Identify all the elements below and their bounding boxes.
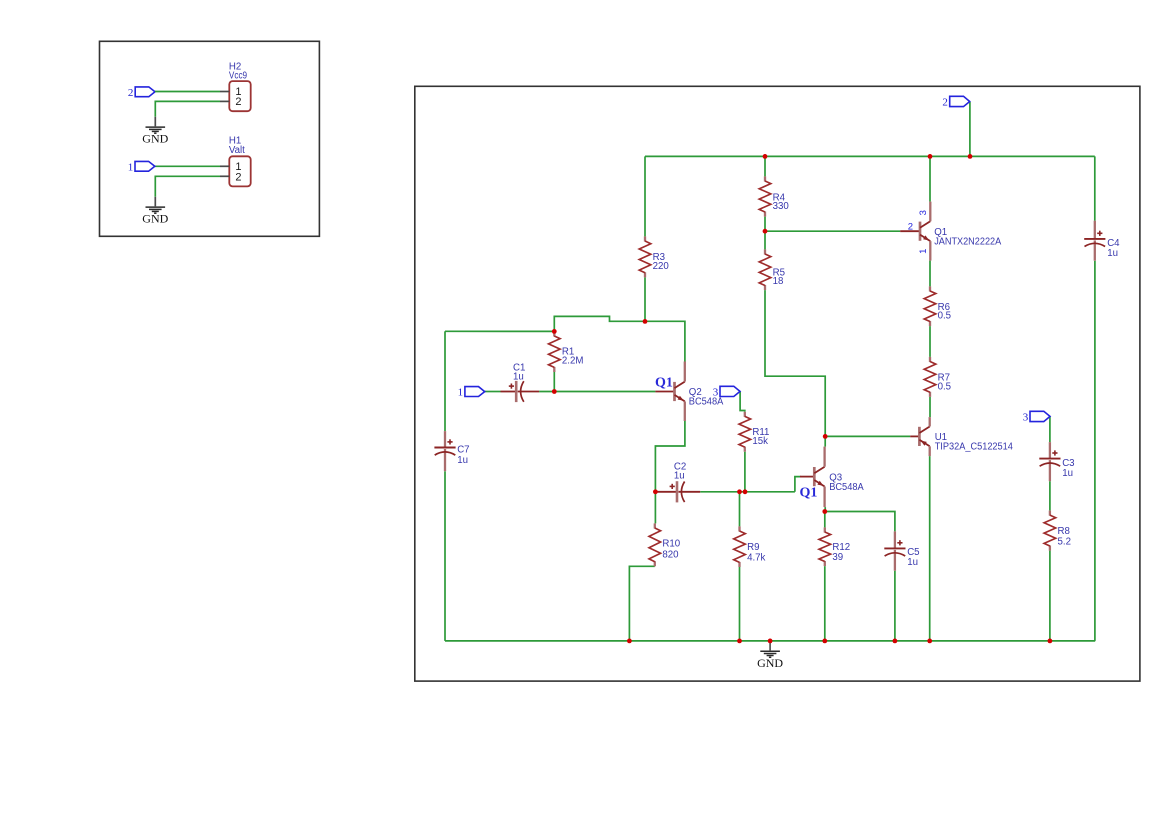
svg-text:GND: GND <box>142 212 168 226</box>
svg-text:BC548A: BC548A <box>689 396 724 407</box>
svg-text:GND: GND <box>757 656 783 670</box>
wire <box>764 156 766 176</box>
svg-text:Q1: Q1 <box>800 485 818 500</box>
junction C5 ground <box>893 639 898 644</box>
junction R12 ground <box>822 639 827 644</box>
svg-text:2: 2 <box>235 171 241 183</box>
wire <box>739 492 741 527</box>
wire <box>539 391 655 393</box>
port 1 (input) <box>465 387 485 397</box>
junction port2 bus <box>968 154 973 159</box>
wire <box>1049 551 1051 641</box>
svg-text:1: 1 <box>458 387 464 399</box>
resistor R4 <box>759 176 771 216</box>
wire U1 base stub <box>910 435 918 437</box>
wire <box>894 571 896 641</box>
wire <box>744 452 746 492</box>
transistor Q1 (JANTX2N2222A) <box>920 202 930 261</box>
connector H2 <box>220 81 251 111</box>
resistor R7 <box>924 357 936 397</box>
wire <box>824 566 826 641</box>
wire <box>929 326 931 357</box>
wire <box>700 491 795 493</box>
wire <box>824 507 826 511</box>
wire <box>155 91 220 93</box>
svg-text:1u: 1u <box>1062 468 1073 479</box>
svg-text:3: 3 <box>918 210 929 215</box>
wire <box>764 231 766 249</box>
svg-text:0.5: 0.5 <box>938 382 951 393</box>
resistor R8 <box>1044 511 1056 551</box>
junction R11 bottom <box>743 489 748 494</box>
junction R9 top <box>737 489 742 494</box>
wire <box>155 101 220 116</box>
wire ground bus <box>445 640 1095 642</box>
junction R9 ground <box>737 639 742 644</box>
junction R10 ground <box>627 639 632 644</box>
resistor R10 <box>649 523 661 566</box>
wire <box>824 436 826 446</box>
svg-text:1: 1 <box>128 161 134 173</box>
svg-text:2: 2 <box>235 96 241 108</box>
resistor R9 <box>734 526 746 567</box>
svg-text:R9: R9 <box>747 542 759 553</box>
capacitor C7 <box>434 431 455 471</box>
wire <box>929 261 931 287</box>
svg-text:820: 820 <box>662 550 679 561</box>
wire <box>929 456 931 641</box>
wire <box>740 392 745 412</box>
svg-text:GND: GND <box>142 132 168 146</box>
wire Vcc bus <box>645 155 1095 157</box>
junction R8 ground <box>1048 639 1053 644</box>
wire <box>765 290 825 436</box>
svg-text:Q1: Q1 <box>655 376 673 391</box>
junction R4 top <box>763 154 768 159</box>
wire <box>824 512 826 528</box>
svg-text:JANTX2N2222A: JANTX2N2222A <box>934 237 1002 248</box>
svg-text:5.2: 5.2 <box>1058 536 1071 547</box>
junction Q3 emitter <box>822 509 827 514</box>
svg-text:2: 2 <box>942 97 948 109</box>
svg-text:1u: 1u <box>513 371 524 382</box>
wire <box>654 492 656 524</box>
wire <box>444 331 446 431</box>
svg-text:BC548A: BC548A <box>829 482 864 493</box>
capacitor C1 <box>501 381 540 402</box>
junction R3 bottom <box>643 319 648 324</box>
resistor R1 <box>549 331 561 372</box>
wire <box>929 397 931 417</box>
ground GND (main) <box>757 641 783 670</box>
junction Q3 collector <box>823 434 828 439</box>
junction R4/R5 <box>763 229 768 234</box>
wire Q3 base stub <box>800 476 813 478</box>
svg-text:0.5: 0.5 <box>938 310 951 321</box>
wire <box>739 567 741 641</box>
svg-text:3: 3 <box>1023 412 1029 424</box>
ground GND (sheet1 lower) <box>142 197 168 226</box>
svg-text:4.7k: 4.7k <box>747 552 765 563</box>
port 3 (right) <box>1030 411 1050 421</box>
svg-text:1u: 1u <box>674 471 685 482</box>
wire <box>825 512 895 532</box>
frame main circuit <box>415 86 1140 681</box>
svg-text:220: 220 <box>653 261 670 272</box>
frame sheet1 <box>100 41 320 236</box>
wire <box>1094 261 1096 641</box>
junction Q1 collector bus <box>928 154 933 159</box>
ground GND (sheet1 upper) <box>142 117 168 146</box>
junction U1 ground <box>927 639 932 644</box>
port 1 (sheet1) <box>135 161 155 171</box>
svg-text:330: 330 <box>773 201 790 212</box>
wire <box>795 477 801 492</box>
wire <box>1094 156 1096 220</box>
port 2 (top) <box>950 96 970 106</box>
junction C1/R1 <box>552 389 557 394</box>
svg-text:18: 18 <box>773 276 784 287</box>
wire <box>644 277 646 321</box>
svg-text:C3: C3 <box>1062 458 1074 469</box>
wire <box>554 316 685 361</box>
wire <box>155 165 220 167</box>
connector H1 <box>220 156 251 186</box>
wire <box>629 566 654 641</box>
svg-text:1: 1 <box>918 249 929 254</box>
capacitor C3 <box>1039 442 1060 481</box>
svg-text:Valt: Valt <box>229 145 245 156</box>
svg-text:1u: 1u <box>1107 248 1118 259</box>
wire <box>644 156 646 236</box>
wire <box>485 391 501 393</box>
svg-text:1u: 1u <box>907 557 918 568</box>
svg-text:C7: C7 <box>457 445 469 456</box>
junction C2 left <box>653 489 658 494</box>
resistor R11 <box>739 412 751 452</box>
wire <box>444 471 446 641</box>
resistor R3 <box>639 236 651 277</box>
capacitor C5 <box>884 531 905 570</box>
svg-text:39: 39 <box>832 552 843 563</box>
svg-text:TIP32A_C5122514: TIP32A_C5122514 <box>935 442 1014 453</box>
wire <box>825 435 910 437</box>
svg-text:15k: 15k <box>752 436 768 447</box>
svg-text:Vcc9: Vcc9 <box>229 70 247 81</box>
wire <box>655 421 685 492</box>
svg-text:R10: R10 <box>662 538 680 549</box>
resistor R6 <box>924 286 936 326</box>
port 2 (sheet1) <box>135 87 155 97</box>
svg-text:R8: R8 <box>1058 526 1070 537</box>
wire Q1 base stub <box>900 230 919 232</box>
wire <box>1049 481 1051 510</box>
svg-text:2.2M: 2.2M <box>562 356 584 367</box>
capacitor C4 <box>1084 221 1105 261</box>
wire <box>155 176 220 197</box>
svg-text:2: 2 <box>908 221 913 232</box>
capacitor C2 <box>655 481 700 502</box>
wire <box>929 156 931 201</box>
wire <box>1049 417 1051 443</box>
transistor Q2 (BC548A) <box>675 362 685 422</box>
junction R1 top <box>552 329 557 334</box>
resistor R5 <box>759 249 771 290</box>
wire <box>765 230 900 232</box>
port 3 (near Q2) <box>720 386 740 396</box>
transistor Q3 (BC548A) <box>814 447 824 508</box>
svg-text:3: 3 <box>713 387 719 399</box>
svg-text:1u: 1u <box>457 455 468 466</box>
wire Q2 base stub <box>655 391 673 393</box>
junction GND <box>768 639 773 644</box>
svg-text:2: 2 <box>128 87 133 99</box>
transistor U1 (TIP32A) <box>919 417 929 456</box>
resistor R12 <box>819 527 831 566</box>
wire <box>553 372 555 392</box>
wire <box>764 217 766 232</box>
wire <box>445 330 554 332</box>
wire <box>969 102 971 156</box>
